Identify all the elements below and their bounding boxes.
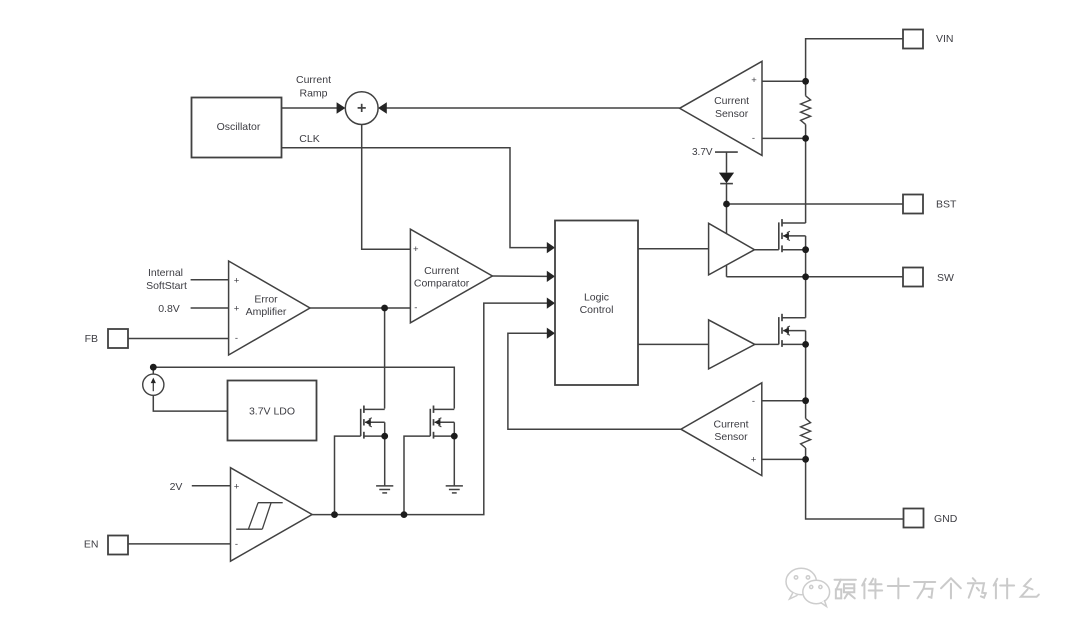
svg-text:3.7V: 3.7V xyxy=(692,147,713,158)
svg-text:+: + xyxy=(751,455,757,466)
svg-text:Comparator: Comparator xyxy=(414,278,470,290)
svg-text:+: + xyxy=(413,244,419,255)
svg-text:+: + xyxy=(234,275,240,286)
svg-text:Current: Current xyxy=(714,95,749,107)
svg-text:SoftStart: SoftStart xyxy=(146,280,187,292)
svg-text:Logic: Logic xyxy=(584,291,609,303)
svg-text:Ramp: Ramp xyxy=(299,88,327,100)
svg-text:Current: Current xyxy=(296,74,331,86)
svg-text:-: - xyxy=(414,302,417,313)
svg-text:-: - xyxy=(752,133,755,144)
svg-text:-: - xyxy=(752,396,755,407)
svg-text:CLK: CLK xyxy=(299,133,319,145)
svg-text:SW: SW xyxy=(937,272,954,284)
svg-text:Sensor: Sensor xyxy=(715,108,749,120)
svg-text:Oscillator: Oscillator xyxy=(217,121,261,133)
svg-text:+: + xyxy=(234,481,240,492)
svg-text:GND: GND xyxy=(934,513,958,525)
svg-text:3.7V LDO: 3.7V LDO xyxy=(249,406,295,418)
svg-text:EN: EN xyxy=(84,539,99,551)
svg-text:+: + xyxy=(234,304,240,315)
svg-text:Amplifier: Amplifier xyxy=(246,306,287,318)
svg-text:-: - xyxy=(235,333,238,344)
svg-text:+: + xyxy=(751,75,757,86)
svg-text:Sensor: Sensor xyxy=(714,431,748,443)
svg-text:Control: Control xyxy=(580,304,614,316)
svg-text:Error: Error xyxy=(254,294,278,306)
svg-text:Current: Current xyxy=(424,265,459,277)
svg-text:BST: BST xyxy=(936,199,957,211)
svg-text:FB: FB xyxy=(85,333,98,345)
svg-text:VIN: VIN xyxy=(936,33,954,45)
svg-text:0.8V: 0.8V xyxy=(158,303,180,315)
svg-text:2V: 2V xyxy=(170,481,183,493)
svg-text:Internal: Internal xyxy=(148,267,183,279)
svg-text:Current: Current xyxy=(713,418,748,430)
svg-text:-: - xyxy=(235,539,238,550)
